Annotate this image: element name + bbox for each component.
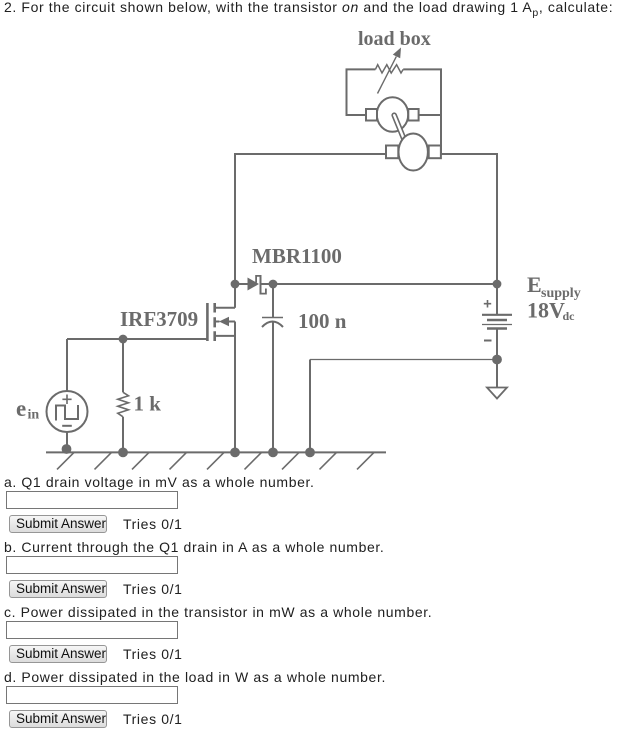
svg-text:100 n: 100 n xyxy=(298,309,347,333)
svg-text:MBR1100: MBR1100 xyxy=(252,244,342,268)
svg-text:e: e xyxy=(16,396,26,421)
svg-text:in: in xyxy=(28,408,40,423)
svg-text:IRF3709: IRF3709 xyxy=(120,307,198,331)
svg-text:dc: dc xyxy=(563,309,576,323)
svg-text:E: E xyxy=(527,272,542,297)
svg-text:load box: load box xyxy=(358,28,431,50)
svg-text:1 k: 1 k xyxy=(134,392,162,416)
svg-text:18V: 18V xyxy=(527,298,565,323)
